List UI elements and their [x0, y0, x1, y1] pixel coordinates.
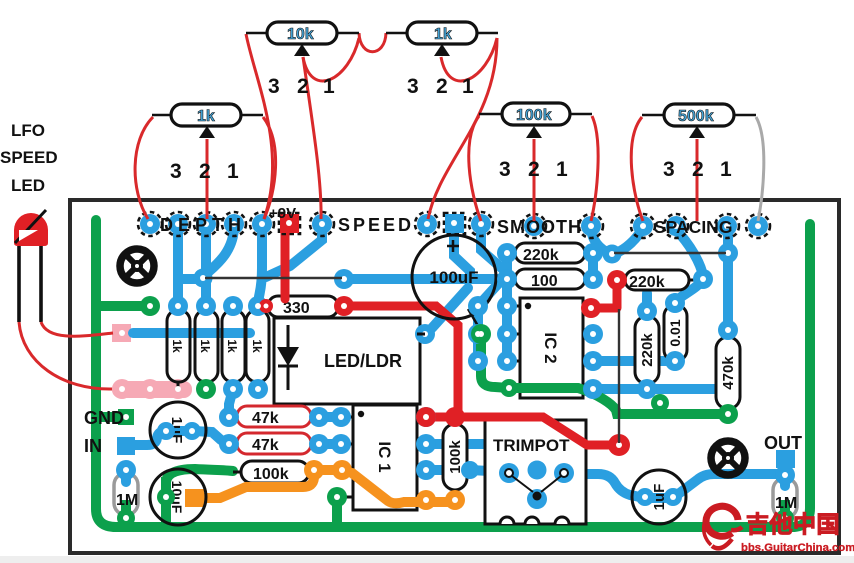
- svg-text:3: 3: [499, 158, 511, 181]
- wire green stub to pad row3: [96, 301, 148, 311]
- svg-text:500k: 500k: [678, 108, 714, 125]
- wire 47k2 right link to IC1: [317, 439, 343, 449]
- resistor 1M left: [114, 473, 138, 515]
- resistor 220k right: [617, 270, 700, 291]
- wire red 9V down: [281, 226, 290, 299]
- potentiometer 1k top body: [386, 22, 498, 98]
- svg-text:3: 3: [663, 158, 675, 181]
- wire IC1 pin2 right to trimpot node: [432, 444, 537, 468]
- resistor 100k horizontal: [233, 461, 315, 483]
- svg-text:3: 3: [407, 75, 419, 98]
- green pads: [117, 296, 794, 527]
- white holes: [119, 250, 788, 521]
- wire pointer 100uF negative: [468, 309, 481, 331]
- wire col E down: [173, 224, 183, 304]
- orange pads: [304, 460, 465, 510]
- wire pot100k lug2: [533, 139, 536, 221]
- node pink pad square upper: [112, 324, 131, 342]
- svg-text:2: 2: [199, 160, 211, 183]
- svg-text:100k: 100k: [253, 466, 289, 483]
- svg-text:100: 100: [531, 273, 558, 290]
- svg-text:47k: 47k: [252, 410, 279, 427]
- wire stub E to node: [178, 274, 203, 284]
- wire IC2 pin2 right stub: [588, 253, 598, 279]
- svg-text:LED/LDR: LED/LDR: [324, 351, 402, 371]
- svg-text:1: 1: [556, 158, 568, 181]
- svg-text:470k: 470k: [720, 356, 737, 390]
- svg-text:3: 3: [268, 75, 280, 98]
- mounting hole right: [711, 441, 745, 475]
- wire green 100uF minus to IC2 pin4: [481, 334, 509, 388]
- wire column 507: [502, 253, 512, 361]
- wire pot1k lug3: [135, 117, 153, 219]
- wire column 478: [473, 306, 483, 361]
- svg-text:GND: GND: [84, 408, 124, 428]
- node GND pad square: [118, 409, 134, 425]
- wire link 10k-1k: [359, 33, 386, 52]
- top row pads with dashed rings: [138, 212, 770, 238]
- resistor 100k vertical: [443, 417, 467, 500]
- wire green 1M right to rail: [780, 500, 790, 524]
- wire IC1 pin3 right to trimpot lug: [426, 470, 509, 472]
- pin stub LED/LDR right: [417, 333, 425, 336]
- potentiometer wires red: [135, 33, 697, 221]
- resistor 47k lower: [229, 433, 319, 454]
- wire pot500k lug2: [696, 139, 699, 221]
- wire col P down through junction: [201, 224, 211, 304]
- resistor 220k top: [507, 243, 593, 264]
- wire orange stub to IC1 pin3: [314, 465, 342, 475]
- potentiometer 500k body: [642, 104, 756, 181]
- wire col H down to r4 top: [258, 224, 262, 304]
- wire pot1kB lug1 long: [428, 38, 497, 219]
- capacitor C 10uF circle: [150, 469, 206, 525]
- wire 220k right to 0.01 top: [677, 279, 703, 300]
- wire green 1M left to rail: [121, 500, 131, 524]
- svg-text:1: 1: [227, 160, 239, 183]
- wire orange 10uF to 100k right: [196, 470, 314, 498]
- wire pot1k lug1: [263, 117, 276, 219]
- wire r3 bottom to 47k1: [229, 389, 233, 417]
- node +9V red square pad: [280, 214, 299, 233]
- LED D1: [14, 213, 48, 246]
- wire IC2 pin3 right to 0.01 bottom: [593, 356, 673, 366]
- wire ground rail left+bottom+right: [96, 220, 810, 527]
- wire green 10uF vertical: [161, 477, 171, 524]
- capacitor C 100uF circle: [412, 235, 496, 331]
- wire pot500k lug1 gray: [756, 117, 764, 221]
- wire red 330 to middle: [344, 306, 458, 412]
- photocell box LED/LDR: [274, 318, 420, 404]
- node red junction trimpot right: [608, 434, 630, 456]
- wire pink bus lower: [112, 381, 192, 398]
- trimpot box: [485, 420, 586, 524]
- board outline: [70, 200, 839, 553]
- op-amp U1 IC 1: [341, 405, 429, 510]
- wire pot10k lug2 long: [303, 57, 321, 219]
- svg-text:LFO: LFO: [11, 121, 45, 140]
- potentiometer 1k body: [152, 104, 263, 183]
- svg-text:2: 2: [692, 158, 704, 181]
- wire jumper J2: [614, 252, 726, 254]
- svg-text:吉他中国: 吉他中国: [746, 511, 840, 537]
- wire column 728 spacing down: [723, 228, 733, 330]
- wire smooth-left pad down: [481, 226, 507, 279]
- capacitor 0.01 body: [664, 305, 687, 361]
- wire red IC2 pin1 link: [591, 282, 617, 308]
- svg-text:SPEED: SPEED: [338, 215, 414, 235]
- op-amp U2 IC 2: [508, 298, 595, 398]
- svg-text:2: 2: [297, 75, 309, 98]
- diode symbol inside LED/LDR: [278, 325, 298, 390]
- svg-text:47k: 47k: [252, 437, 279, 454]
- resistor 1M right: [773, 478, 797, 518]
- wire pot500k lug3: [631, 117, 643, 221]
- wire spacing-left down to node: [616, 227, 643, 253]
- svg-text:220k: 220k: [639, 333, 656, 367]
- svg-text:2: 2: [436, 75, 448, 98]
- wire 100uF to LEDLDR pad: [432, 288, 468, 328]
- wire 220k-v bottom stub: [642, 382, 652, 389]
- logo swirl: [704, 506, 742, 548]
- wire smooth-right down to node: [591, 226, 610, 253]
- svg-text:220k: 220k: [629, 274, 665, 291]
- resistor 330: [268, 296, 338, 317]
- wire LED leg to pink lower: [19, 322, 112, 389]
- wire 100uF top entry: [454, 230, 470, 279]
- svg-text:bbs.GuitarChina.com: bbs.GuitarChina.com: [741, 542, 854, 554]
- wire pot100k lug3: [469, 116, 481, 221]
- resistor 1k vertical x4: [167, 304, 269, 388]
- wire orange under IC1 to 100k-v bottom: [352, 473, 455, 503]
- wire long horizontal row 279: [344, 274, 507, 284]
- wire 0.01 vertical: [670, 298, 680, 362]
- svg-text:1k: 1k: [434, 26, 452, 43]
- node IN square pad: [117, 437, 135, 455]
- WATERMARK: [704, 506, 854, 554]
- capacitor C 1uF right circle: [632, 470, 686, 524]
- svg-text:220k: 220k: [523, 247, 559, 264]
- wire trimpot lug right exit to 1uF: [564, 474, 645, 498]
- wire 1uF right through: [645, 474, 785, 498]
- svg-text:1M: 1M: [116, 492, 138, 509]
- wire 1M right top stub: [780, 475, 790, 486]
- svg-text:SMOOTH: SMOOTH: [497, 217, 582, 237]
- pink trace row pads: [112, 324, 192, 399]
- svg-text:TRIMPOT: TRIMPOT: [493, 436, 570, 455]
- node red junction at 100k-v top: [445, 407, 465, 427]
- svg-text:1k: 1k: [198, 339, 212, 353]
- wire pot1kB lug2 arc: [441, 38, 497, 81]
- resistor 220k vertical: [635, 316, 659, 384]
- svg-text:100uF: 100uF: [429, 268, 478, 287]
- svg-text:0.01: 0.01: [667, 319, 683, 346]
- svg-text:3: 3: [170, 160, 182, 183]
- wire up to OUT: [780, 460, 790, 474]
- wire green 10uF to 100k resistor: [166, 469, 233, 482]
- wire trimpot lug left to lug bottom: [508, 474, 537, 499]
- wire green inside IC2: [509, 383, 578, 393]
- resistor 47k upper: [229, 406, 319, 427]
- red pads: [259, 270, 627, 427]
- svg-text:IN: IN: [84, 436, 102, 456]
- wire diag 478 up: [478, 284, 498, 306]
- svg-text:1k: 1k: [250, 339, 264, 353]
- wire green IC2 to 470k bottom: [578, 388, 728, 414]
- wire IN to 1uF to 47k2: [133, 431, 231, 445]
- svg-text:+9V: +9V: [269, 205, 296, 222]
- svg-text:2: 2: [528, 158, 540, 181]
- potentiometer 100k body: [479, 103, 592, 181]
- wire green stub up: [655, 404, 665, 414]
- wire jumper J1: [205, 277, 342, 279]
- node OUT square pad: [776, 450, 795, 468]
- svg-text:1k: 1k: [225, 339, 239, 353]
- wire IC2 pin4 right along: [593, 384, 724, 394]
- svg-text:LED: LED: [11, 176, 45, 195]
- svg-text:DEPTH: DEPTH: [160, 215, 246, 235]
- wire pad9V-right diagonal: [266, 226, 322, 277]
- svg-text:SPEED: SPEED: [0, 148, 58, 167]
- svg-text:IC 2: IC 2: [541, 332, 560, 363]
- svg-text:1: 1: [720, 158, 732, 181]
- wire spacing pad diag to 220k: [676, 230, 703, 276]
- node orange square in 10uF: [185, 489, 204, 507]
- svg-text:1k: 1k: [197, 108, 215, 125]
- wire LED leg to pink upper: [41, 322, 113, 336]
- wire y334 blue across resistors: [133, 328, 250, 338]
- mounting hole left: [120, 249, 154, 283]
- svg-text:100k: 100k: [516, 107, 552, 124]
- wire 47k1 right link to IC1: [317, 412, 343, 422]
- wire col T down: [206, 226, 234, 274]
- svg-text:IC 1: IC 1: [375, 441, 394, 472]
- wire pot10k lug2 jumper arc: [303, 38, 359, 81]
- wire pot1k lug2: [206, 139, 209, 219]
- potentiometer 10k body: [246, 22, 359, 98]
- wire green IC1 pin4 to rail: [332, 498, 342, 523]
- svg-text:1: 1: [323, 75, 335, 98]
- wire 220k-v top stub: [642, 293, 652, 318]
- capacitor C 1uF left circle: [150, 402, 206, 458]
- resistor 100: [507, 269, 593, 290]
- trimpot wiper links: [512, 476, 561, 492]
- svg-text:SPACING: SPACING: [654, 217, 732, 237]
- resistor 470k vertical: [716, 330, 740, 416]
- LED-AREA: [0, 121, 113, 389]
- svg-text:1k: 1k: [170, 339, 184, 353]
- wire pot100k lug1: [591, 116, 598, 221]
- wire red row 417 to trimpot node: [426, 417, 615, 445]
- svg-text:1: 1: [462, 75, 474, 98]
- blue pads grid: [116, 243, 795, 509]
- LED legs: [19, 246, 41, 322]
- svg-text:OUT: OUT: [764, 433, 802, 453]
- wire jumper J3: [618, 309, 620, 443]
- wire 1M left top stub: [121, 470, 131, 482]
- wire pot10k lug3: [246, 34, 273, 219]
- svg-text:10k: 10k: [287, 26, 314, 43]
- bottom strip: [0, 556, 854, 563]
- wire green stub GND: [96, 412, 122, 422]
